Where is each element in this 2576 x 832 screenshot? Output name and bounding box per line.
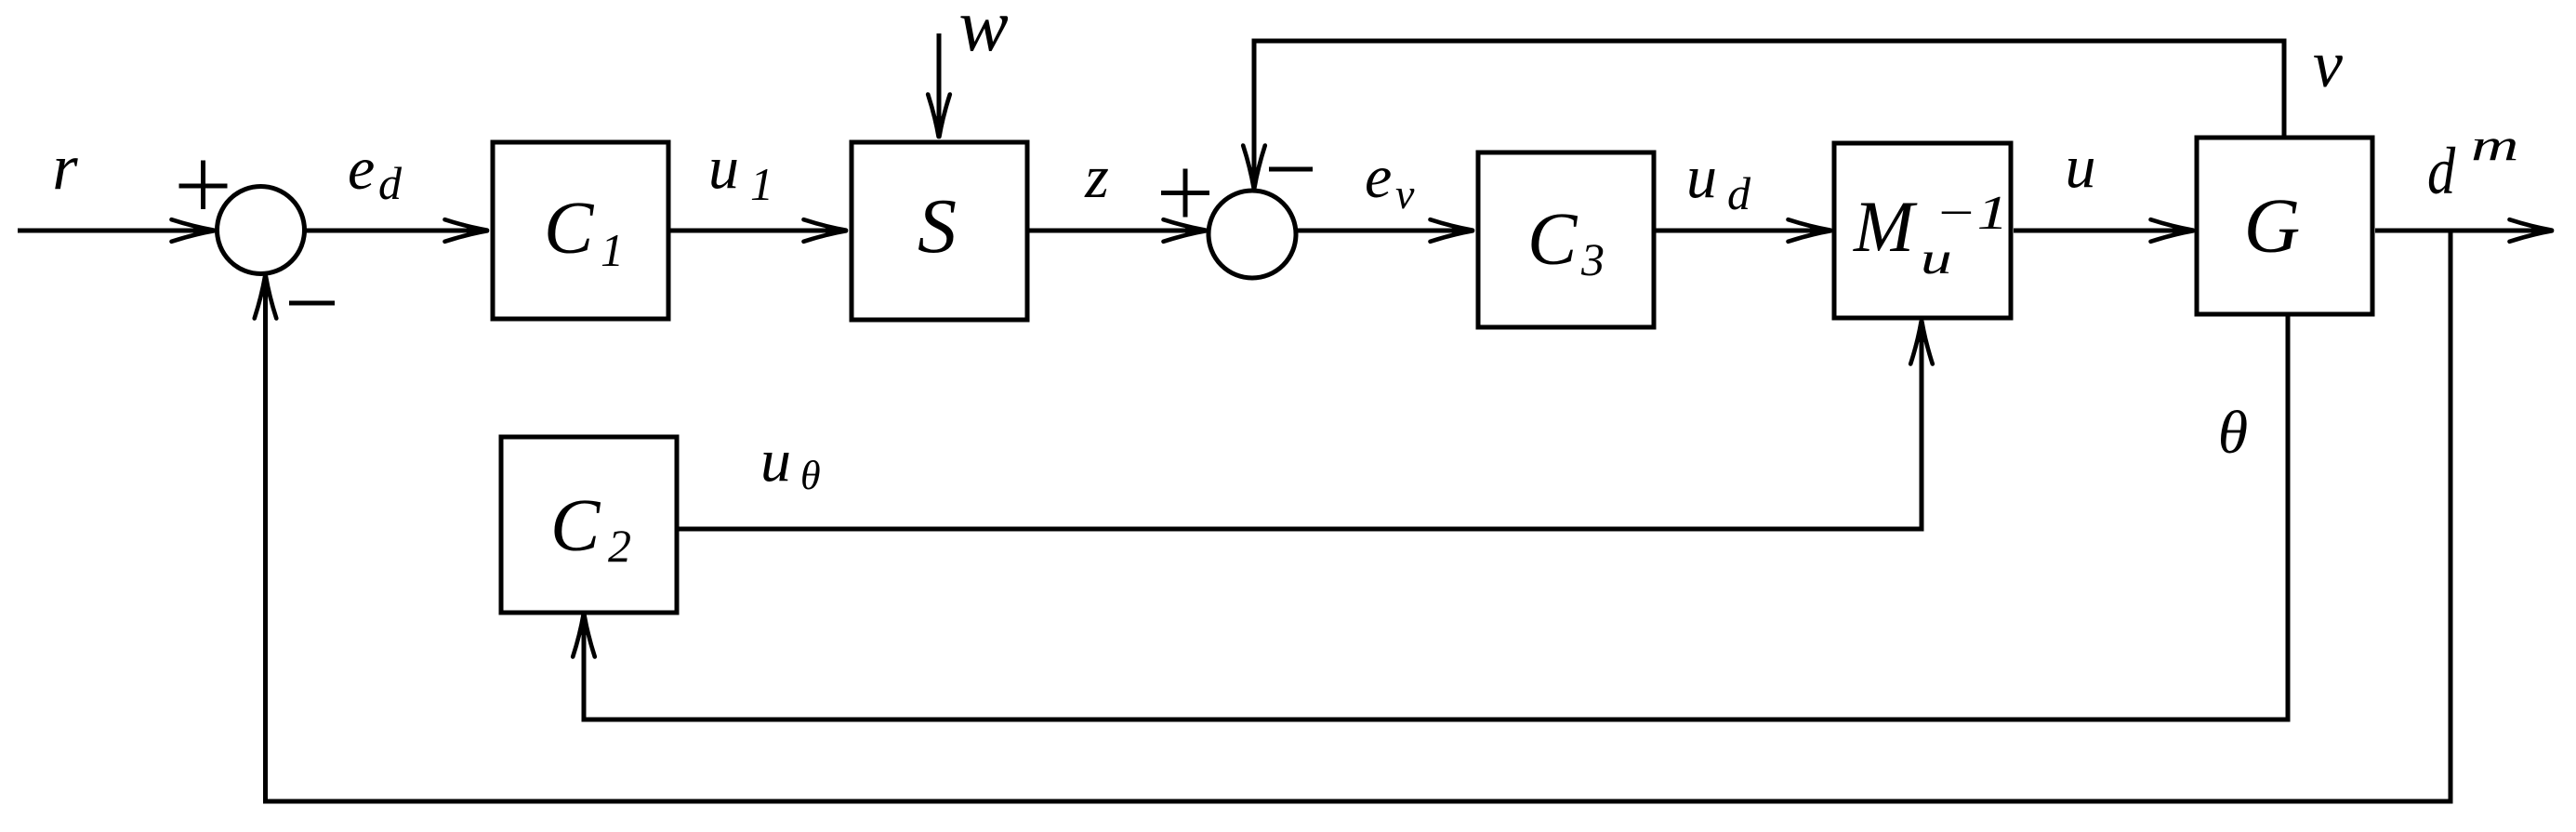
svg-text:θ: θ: [2218, 399, 2248, 467]
block Mu^-1: [1834, 143, 2011, 318]
block C3: [1478, 152, 1654, 327]
svg-text:u: u: [1686, 143, 1717, 211]
svg-text:v: v: [1395, 170, 1415, 218]
label e_d: [348, 135, 403, 209]
block S: [852, 142, 1027, 320]
svg-text:e: e: [348, 135, 375, 203]
svg-text:u: u: [2066, 133, 2096, 201]
wire u_theta from C2 to Mu^-1: [679, 321, 1922, 529]
svg-text:d: d: [2427, 135, 2456, 208]
svg-text:r: r: [52, 132, 78, 204]
label u_theta: [760, 427, 821, 498]
svg-text:d: d: [1727, 167, 1751, 219]
svg-text:C: C: [550, 485, 601, 567]
label C2: [550, 485, 631, 572]
label Mu^-1: [1853, 186, 2008, 284]
wire w into S: [937, 33, 942, 138]
svg-text:G: G: [2244, 183, 2301, 270]
block G: [2197, 138, 2372, 314]
svg-text:e: e: [1365, 143, 1392, 211]
wire u1: [670, 229, 847, 233]
svg-text:C: C: [1527, 199, 1579, 281]
svg-text:w: w: [958, 0, 1008, 67]
svg-text:u: u: [1921, 233, 1952, 283]
svg-text:M: M: [1853, 186, 1918, 267]
label C3: [1527, 199, 1605, 285]
plus sign at J2: [1161, 169, 1209, 218]
wire e_d: [304, 229, 488, 233]
svg-text:1: 1: [750, 158, 773, 210]
svg-text:−1: −1: [1935, 186, 2008, 240]
wire outer feedback to J1: [266, 231, 2451, 801]
svg-text:d: d: [378, 157, 403, 209]
summing junction J1: [218, 187, 305, 274]
wire z: [1029, 229, 1207, 233]
svg-text:1: 1: [601, 224, 624, 276]
summing junction J2: [1209, 191, 1296, 278]
label u_d: [1686, 143, 1751, 219]
minus sign at J2: [1269, 167, 1313, 172]
block C1: [493, 142, 668, 319]
svg-text:2: 2: [608, 520, 631, 572]
svg-text:3: 3: [1580, 233, 1605, 285]
wire theta feedback from G bottom to C2: [584, 314, 2288, 720]
wire r input: [18, 229, 215, 233]
wire d^m output: [2375, 229, 2553, 233]
svg-text:u: u: [708, 134, 739, 202]
label e_v: [1365, 143, 1415, 218]
plus sign at J1: [179, 161, 228, 210]
wire e_v: [1296, 229, 1473, 233]
svg-text:z: z: [1084, 143, 1109, 211]
svg-text:v: v: [2313, 27, 2343, 101]
block C2: [501, 437, 677, 613]
label d^m: [2427, 121, 2518, 208]
svg-text:u: u: [760, 427, 791, 495]
svg-text:m: m: [2471, 121, 2518, 170]
svg-text:C: C: [544, 188, 595, 270]
svg-text:S: S: [918, 183, 957, 270]
label u1: [708, 134, 773, 210]
label C1: [544, 188, 624, 276]
wire u: [2014, 229, 2194, 233]
wire v feedback from G top to J2: [1254, 41, 2284, 189]
minus sign at J1: [289, 301, 335, 306]
wire u_d: [1656, 229, 1831, 233]
svg-text:θ: θ: [800, 453, 821, 498]
